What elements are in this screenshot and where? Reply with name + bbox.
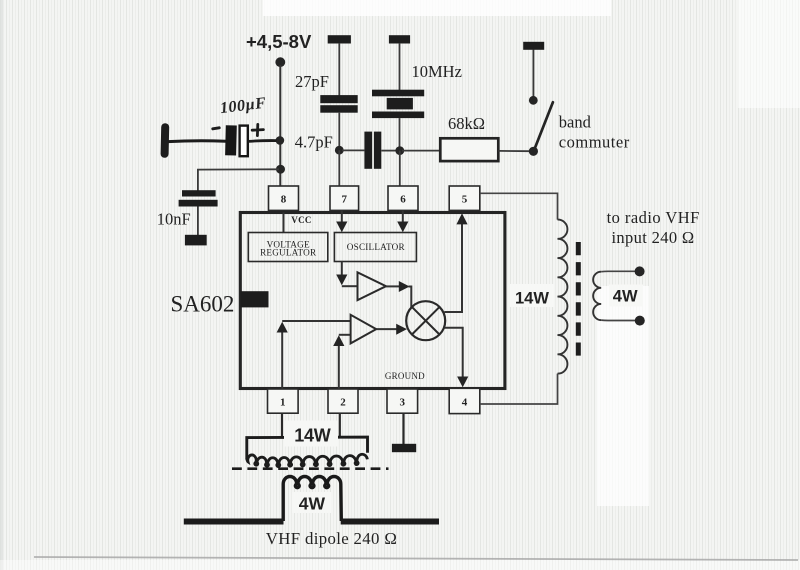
wire pin 8 to voltage regulator (283, 213, 285, 233)
wire junction J4 to pin 6 (399, 151, 401, 187)
ground stub below 10nF (185, 235, 207, 246)
wire junction J3 to pin 7 (338, 150, 340, 187)
pin 8 box (269, 186, 299, 210)
pin 6 box (388, 186, 418, 210)
wire A2 output arrow into mixer (376, 324, 407, 335)
label minus sign (213, 128, 219, 129)
terminal dot secondary top (635, 266, 645, 276)
dipole left arm (184, 519, 284, 525)
wire junction J2 to C2 10nF (198, 169, 279, 190)
svg-text:7: 7 (342, 194, 348, 206)
label 14W primary (510, 284, 554, 307)
transformer T2 primary 14W winding (247, 454, 368, 466)
svg-text:68kΩ: 68kΩ (448, 114, 485, 133)
label 4W secondary (609, 285, 643, 307)
pin 3 box (387, 389, 418, 413)
block voltage regulator (248, 233, 327, 262)
wire A1 output arrow to mixer (386, 281, 411, 308)
node junction J2 (10nF tap) (276, 165, 285, 174)
svg-text:OSCILLATOR: OSCILLATOR (347, 242, 406, 252)
capacitor C3 27pF plates (320, 95, 357, 113)
op-amp A2 (RF input amp) (351, 315, 377, 344)
wire C1 100uF to junction J1 (248, 139, 277, 143)
wire C2 10nF to ground stub (197, 207, 199, 236)
transformer T2 primary 14W bracket (247, 437, 368, 459)
terminal bar above 27pF (328, 35, 351, 43)
IC U1 SA602 body (240, 213, 505, 389)
wire input stub to C1 100uF (168, 139, 226, 143)
pin 1 box (268, 389, 299, 413)
switch S1 blade (534, 102, 553, 150)
svg-text:commuter: commuter (559, 132, 630, 151)
svg-text:5: 5 (462, 194, 468, 206)
crystal X1 10MHz body (372, 90, 424, 118)
transformer T1 secondary 4W winding (593, 272, 601, 320)
wire pin 6 into oscillator with arrow (397, 210, 408, 232)
svg-text:10MHz: 10MHz (412, 62, 462, 81)
wire junction J4 to R1 (402, 150, 441, 152)
wire T1 primary to pin 4 (480, 374, 558, 404)
svg-text:14W: 14W (294, 426, 330, 446)
wire terminal to crystal X1 (399, 43, 401, 90)
wire supply vertical to pin 8 (279, 65, 281, 187)
op-amp A1 (oscillator buffer) (358, 272, 387, 300)
svg-text:VHF dipole 240 Ω: VHF dipole 240 Ω (266, 529, 397, 548)
svg-text:3: 3 (400, 397, 406, 409)
terminal input stub (161, 127, 170, 154)
resistor R1 68k (440, 138, 498, 161)
wire junction J3 to C4 4.7pF (342, 149, 364, 151)
wire R1 to switch S1 (498, 150, 531, 152)
svg-text:GROUND: GROUND (385, 371, 425, 381)
wire T1 secondary bottom lead (601, 319, 640, 321)
capacitor C2 10nF top plate (182, 190, 216, 196)
svg-text:27pF: 27pF (295, 72, 329, 91)
capacitor C4 4.7pF plates (364, 132, 381, 169)
block oscillator (334, 233, 416, 262)
dipole right arm (341, 519, 439, 525)
node junction J1 (100uF) (276, 136, 285, 145)
node supply dot (275, 57, 285, 67)
svg-text:SA602: SA602 (171, 291, 235, 316)
pin 7 box (330, 186, 359, 210)
wire C3 27pF to junction J3 (338, 113, 340, 148)
transformer T1 core dashes (576, 242, 581, 356)
wire pin 5 to transformer T1 primary (480, 193, 558, 219)
svg-text:REGULATOR: REGULATOR (260, 248, 317, 258)
capacitor C1 100uF negative plate (225, 125, 237, 155)
svg-text:1: 1 (280, 397, 286, 409)
svg-text:input 240 Ω: input 240 Ω (612, 228, 695, 247)
wire terminal to C3 27pF (338, 43, 340, 96)
label plus sign (252, 124, 263, 135)
scan edge line bottom (34, 557, 798, 560)
svg-text:10nF: 10nF (157, 209, 191, 228)
transformer T2 core dashed line (232, 467, 389, 470)
label 14W T2 (284, 421, 338, 447)
pin 4 box (449, 388, 480, 413)
wire terminal to switch S1 (532, 50, 534, 97)
wire crystal X1 to junction J4 (399, 118, 401, 148)
switch S1 upper contact dot (529, 96, 538, 105)
wire C4 4.7pF to junction J4 (381, 150, 397, 152)
wire T1 secondary top lead (601, 270, 639, 272)
svg-text:6: 6 (400, 194, 406, 206)
wire pin 2 down to T2 (339, 413, 341, 438)
svg-text:VCC: VCC (291, 215, 311, 225)
label band commuter (559, 113, 630, 152)
terminal bar above switch (523, 42, 544, 50)
switch S1 lower contact dot (529, 147, 538, 156)
wire pin 1 down to T2 (281, 413, 283, 438)
svg-text:4.7pF: 4.7pF (295, 132, 333, 151)
svg-text:4W: 4W (299, 494, 326, 514)
wire oscillator to amp A1 with arrow (336, 262, 357, 287)
terminal bar above crystal (389, 35, 410, 43)
capacitor C2 10nF bottom plate (179, 200, 218, 207)
wire pin 3 down to ground (402, 413, 404, 444)
svg-text:14W: 14W (515, 289, 549, 307)
svg-text:8: 8 (281, 194, 287, 206)
label 4W T2 (292, 492, 331, 514)
pin 2 box (328, 389, 358, 413)
wire pin 1 to amp A2 with arrow (277, 321, 351, 389)
wire mixer output up to pin 5 (444, 213, 467, 312)
svg-text:2: 2 (340, 397, 346, 409)
svg-text:band: band (559, 113, 592, 132)
pin 5 box (449, 186, 480, 210)
capacitor C1 100uF positive plate (240, 126, 248, 157)
mixer M1 (406, 301, 445, 340)
transformer T1 primary 14W winding (558, 220, 568, 374)
node junction J4 (395, 146, 404, 155)
terminal dot secondary bottom (635, 316, 645, 326)
svg-text:100µF: 100µF (219, 95, 267, 118)
svg-text:+4,5-8V: +4,5-8V (246, 31, 312, 52)
transformer T2 secondary 4W winding (283, 477, 341, 521)
wire mixer output down to pin 4 (445, 328, 469, 388)
label to radio VHF input 240 Ohm (607, 208, 700, 247)
ground stub pin 3 (392, 444, 416, 452)
IC pin-1 marker bar (241, 291, 269, 307)
node junction J3 (335, 146, 344, 155)
wire pin 7 into oscillator with arrow (336, 210, 347, 232)
wire pin 2 to amp A2 with arrow (333, 335, 350, 389)
svg-text:4W: 4W (613, 288, 638, 306)
svg-text:to radio VHF: to radio VHF (607, 208, 700, 227)
svg-text:4: 4 (462, 397, 468, 409)
